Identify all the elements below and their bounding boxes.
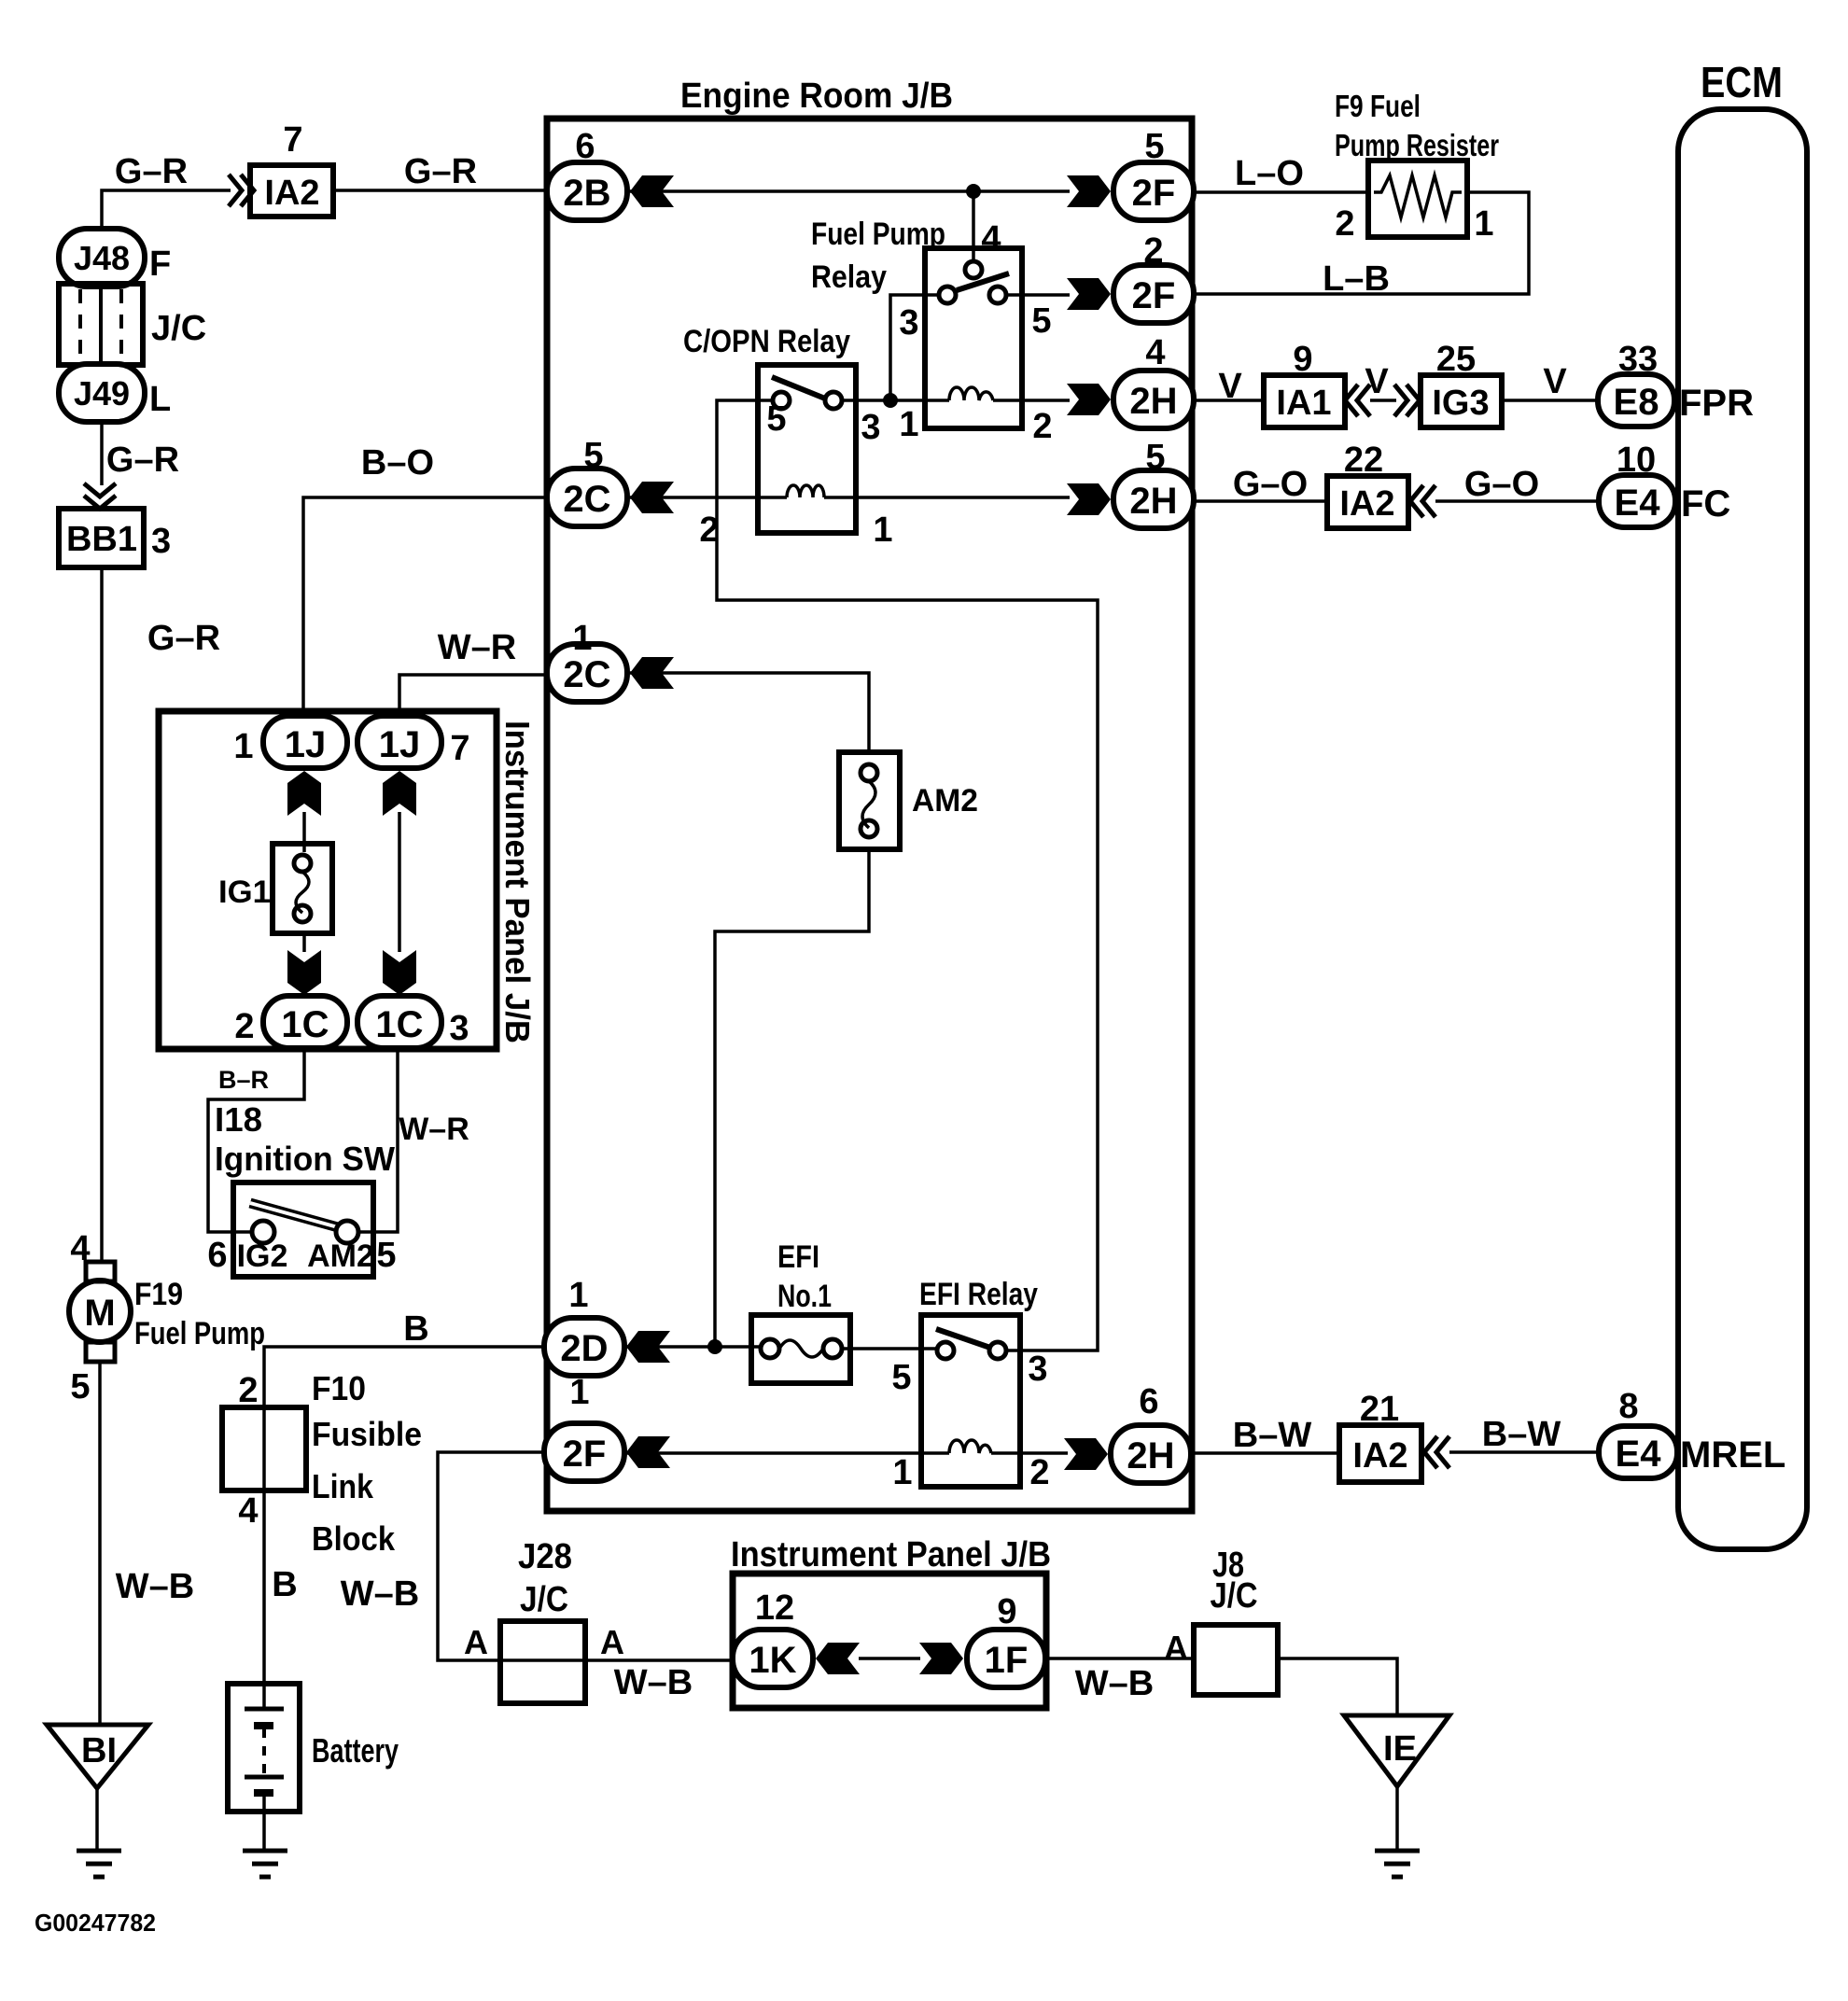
relay C/OPN	[758, 365, 856, 533]
svg-text:IG1: IG1	[218, 875, 271, 910]
arrow into 2D	[626, 1331, 670, 1363]
wire fuel pump relay pin 3 down to coil row	[890, 295, 939, 399]
wire between arrows	[859, 1657, 920, 1660]
svg-text:B–R: B–R	[218, 1066, 269, 1094]
svg-text:1: 1	[892, 1453, 912, 1492]
svg-text:5: 5	[891, 1358, 911, 1397]
arrow up into 1J pin1	[287, 771, 321, 816]
wire battery to ground	[262, 1797, 266, 1849]
connector 2F (pin 2)	[1113, 265, 1194, 323]
svg-text:25: 25	[1436, 340, 1476, 379]
wire 2F pin1 to EFI relay coil to 2H	[626, 1451, 1068, 1455]
wire 1F to J8	[1045, 1657, 1194, 1660]
svg-text:1: 1	[572, 619, 592, 658]
wire C/OPN pin 5 to EFI relay pin 3	[717, 400, 1098, 1350]
wire B-W 2H to IA2	[1191, 1451, 1339, 1455]
fuse IG1	[273, 844, 332, 933]
svg-text:J28: J28	[518, 1537, 572, 1576]
svg-text:1: 1	[899, 405, 918, 444]
wire B battery feed to 2D	[264, 1347, 544, 1407]
ignition switch I18	[233, 1182, 373, 1277]
svg-text:Engine Room J/B: Engine Room J/B	[680, 77, 953, 116]
svg-text:5: 5	[376, 1236, 396, 1275]
connector J48	[59, 229, 145, 287]
wire W-B 2F to J28	[438, 1452, 737, 1660]
junction connector IA1 (9)	[1264, 375, 1345, 427]
svg-text:10: 10	[1617, 441, 1656, 480]
svg-text:IA2: IA2	[1352, 1436, 1407, 1476]
svg-text:W–B: W–B	[341, 1574, 419, 1614]
wire G-O to E4	[1435, 499, 1600, 503]
svg-text:2F: 2F	[563, 1434, 607, 1475]
wire G-R BB1 down to fuel pump	[100, 567, 104, 1262]
chevron into BB1	[84, 483, 116, 509]
svg-text:7: 7	[450, 729, 469, 768]
svg-text:3: 3	[1028, 1350, 1047, 1389]
svg-text:L–O: L–O	[1235, 154, 1304, 193]
svg-text:6: 6	[207, 1236, 227, 1275]
EFI No.1 fuse label	[777, 1239, 832, 1314]
svg-text:IE: IE	[1383, 1729, 1417, 1769]
connector 1J (pin 7)	[357, 716, 441, 768]
svg-text:3: 3	[449, 1009, 469, 1048]
svg-text:2: 2	[699, 511, 719, 550]
wire V between chevrons	[1370, 399, 1396, 402]
wire W-B fuel pump to BI	[98, 1362, 102, 1725]
svg-text:E4: E4	[1616, 1434, 1662, 1475]
svg-text:G–R: G–R	[404, 152, 477, 191]
connector 2F (pin 1)	[544, 1423, 624, 1481]
wire 2C to C/OPN coil to 2H	[630, 496, 1070, 499]
svg-text:G–R: G–R	[115, 152, 188, 191]
svg-text:Fuel Pump: Fuel Pump	[134, 1316, 265, 1351]
arrow into 1F	[919, 1643, 963, 1674]
coil of C/OPN relay	[787, 485, 824, 497]
svg-text:BB1: BB1	[66, 520, 137, 559]
wire 2B to 2F top row	[630, 189, 1070, 193]
svg-text:9: 9	[997, 1592, 1016, 1631]
svg-text:M: M	[84, 1293, 115, 1334]
svg-text:2C: 2C	[563, 479, 610, 520]
connector 2C (pin 1)	[547, 644, 627, 702]
arrow up into 1J pin7	[383, 771, 416, 816]
svg-text:BI: BI	[81, 1731, 117, 1770]
coil of EFI relay	[949, 1440, 991, 1453]
svg-text:F: F	[149, 245, 171, 284]
svg-text:V: V	[1543, 362, 1567, 401]
arrow into 1K	[816, 1643, 860, 1674]
svg-text:AM2: AM2	[912, 783, 978, 819]
arrow into 2C pin1	[630, 657, 674, 689]
svg-text:5: 5	[1145, 438, 1165, 477]
svg-text:J49: J49	[74, 374, 130, 413]
connector 2B	[547, 162, 627, 220]
arrow into 2F pin2	[1067, 278, 1111, 310]
svg-text:3: 3	[899, 303, 918, 343]
svg-text:L: L	[149, 380, 171, 419]
svg-text:Link: Link	[312, 1467, 374, 1505]
svg-text:C/OPN Relay: C/OPN Relay	[683, 324, 850, 359]
svg-text:1C: 1C	[281, 1004, 329, 1045]
chevron out of IA2	[1424, 1436, 1449, 1468]
svg-text:3: 3	[151, 522, 171, 561]
F9 Fuel Pump Resister label	[1335, 89, 1499, 162]
wire fuel pump relay pin 5 to 2F	[1006, 293, 1070, 297]
connector 2H (pin 5)	[1113, 470, 1194, 528]
wire IG1 to 1C	[302, 933, 306, 952]
connector 2F (pin 5)	[1113, 162, 1194, 220]
svg-text:1J: 1J	[379, 724, 421, 765]
fusible link block F10	[222, 1407, 306, 1490]
svg-text:EFI Relay: EFI Relay	[919, 1277, 1038, 1312]
svg-text:W–B: W–B	[614, 1663, 693, 1702]
connector 2C (pin 5)	[547, 469, 627, 526]
junction block J28 J/C	[500, 1621, 585, 1703]
svg-text:J/C: J/C	[1211, 1576, 1258, 1616]
svg-text:2: 2	[1143, 231, 1163, 271]
svg-text:3: 3	[861, 408, 880, 447]
svg-text:1C: 1C	[375, 1004, 423, 1045]
svg-text:5: 5	[583, 436, 603, 475]
svg-text:2B: 2B	[563, 173, 610, 214]
wire B F10 to battery	[262, 1490, 266, 1707]
svg-text:2: 2	[234, 1007, 254, 1046]
svg-text:2F: 2F	[1132, 275, 1176, 316]
connector BB1	[59, 509, 144, 567]
svg-text:F9 Fuel: F9 Fuel	[1335, 89, 1421, 123]
svg-text:1: 1	[233, 727, 253, 766]
svg-text:Pump Resister: Pump Resister	[1335, 128, 1499, 162]
wire 1J to IG1 fuse	[302, 812, 306, 852]
svg-text:4: 4	[238, 1491, 258, 1531]
svg-text:No.1: No.1	[777, 1279, 832, 1314]
wire AM2 fuse down to junction at 2D row	[715, 849, 869, 1347]
svg-text:J/C: J/C	[520, 1580, 568, 1619]
svg-text:W–R: W–R	[399, 1112, 469, 1147]
connector 2D	[544, 1318, 624, 1376]
Instrument Panel J/B box (middle)	[159, 711, 497, 1049]
arrow down into 1C pin2	[287, 950, 321, 995]
svg-text:F10: F10	[312, 1369, 366, 1407]
svg-text:1K: 1K	[749, 1640, 796, 1681]
svg-text:B–O: B–O	[361, 443, 434, 483]
junction connector IA2 (21)	[1339, 1425, 1421, 1482]
svg-text:2C: 2C	[563, 654, 610, 695]
svg-text:B: B	[272, 1565, 297, 1604]
svg-text:Fusible: Fusible	[312, 1415, 422, 1453]
Fuel Pump Relay label	[811, 217, 945, 295]
svg-text:J48: J48	[74, 239, 130, 277]
arrow into 2B	[630, 175, 674, 207]
svg-text:2H: 2H	[1127, 1435, 1174, 1476]
svg-text:2F: 2F	[1132, 173, 1176, 214]
junction node	[883, 393, 898, 408]
junction connector IA2 (22)	[1327, 476, 1408, 528]
svg-text:V: V	[1365, 362, 1389, 401]
ground connector BI	[47, 1725, 148, 1788]
svg-text:2: 2	[1032, 407, 1052, 446]
svg-text:EFI: EFI	[777, 1239, 819, 1275]
wire G-O 2H to IA2	[1194, 499, 1327, 503]
wire G-R from IA2 to 2B	[333, 189, 548, 192]
svg-text:IA1: IA1	[1276, 384, 1331, 423]
connector 1J (pin 1)	[263, 716, 347, 768]
svg-text:Instrument Panel J/B: Instrument Panel J/B	[498, 721, 537, 1043]
svg-text:Instrument Panel J/B: Instrument Panel J/B	[731, 1535, 1051, 1574]
svg-text:1: 1	[1474, 204, 1493, 244]
fuse AM2	[839, 752, 900, 849]
ground	[77, 1851, 121, 1877]
svg-text:Relay: Relay	[811, 259, 887, 295]
svg-text:G–R: G–R	[106, 441, 179, 480]
svg-text:2: 2	[238, 1371, 258, 1410]
svg-text:MREL: MREL	[1680, 1434, 1785, 1476]
svg-text:9: 9	[1293, 340, 1312, 379]
svg-text:7: 7	[283, 120, 302, 160]
chevron into IG3	[1394, 385, 1420, 416]
svg-text:G–O: G–O	[1464, 465, 1539, 504]
chevron out of IA1	[1345, 385, 1370, 416]
connector E4 FC	[1599, 475, 1675, 527]
coil of fuel pump relay	[949, 387, 993, 400]
svg-text:G00247782: G00247782	[35, 1909, 156, 1937]
svg-text:2H: 2H	[1129, 381, 1177, 422]
ground	[243, 1851, 287, 1877]
svg-text:1: 1	[569, 1373, 589, 1412]
svg-text:FC: FC	[1681, 483, 1730, 525]
arrow into 2H pin6	[1064, 1438, 1108, 1470]
battery	[228, 1684, 300, 1812]
ground	[1375, 1851, 1420, 1877]
wire IE to ground	[1395, 1786, 1399, 1849]
svg-text:L–B: L–B	[1323, 259, 1390, 299]
connector J49	[59, 364, 145, 422]
svg-text:W–R: W–R	[438, 628, 516, 667]
junction block J/C (J48/J49)	[59, 284, 143, 365]
svg-text:F19: F19	[134, 1277, 183, 1312]
wire BI to ground	[95, 1788, 99, 1849]
svg-text:21: 21	[1360, 1390, 1399, 1429]
svg-text:B–W: B–W	[1482, 1415, 1561, 1454]
svg-text:IG2: IG2	[237, 1238, 288, 1274]
svg-text:2: 2	[1029, 1453, 1049, 1492]
svg-text:6: 6	[1139, 1382, 1158, 1421]
svg-text:5: 5	[1144, 127, 1164, 166]
J8 label	[1211, 1546, 1258, 1616]
wire 1J pin7 to 1C pin3	[398, 812, 401, 952]
wire L-O 2F to resistor	[1194, 190, 1368, 194]
svg-text:Block: Block	[312, 1519, 396, 1558]
arrow into 2F pin1	[626, 1436, 670, 1468]
wire C/OPN pin 3 through fuel pump relay coil to 2H	[842, 399, 1070, 402]
svg-text:4: 4	[981, 219, 1001, 259]
svg-text:8: 8	[1618, 1387, 1638, 1426]
svg-text:ECM: ECM	[1701, 58, 1783, 106]
svg-text:E4: E4	[1615, 483, 1661, 524]
svg-text:A: A	[1164, 1629, 1188, 1667]
wire V 2H to IA1	[1194, 399, 1264, 402]
junction block J8 J/C	[1194, 1625, 1278, 1695]
svg-text:6: 6	[575, 127, 595, 166]
svg-text:G–R: G–R	[147, 619, 220, 658]
svg-text:W–B: W–B	[1075, 1664, 1154, 1703]
wire G-R J49 to BB1	[100, 422, 104, 485]
Engine Room J/B box	[547, 119, 1192, 1511]
resistor F9	[1368, 161, 1467, 237]
wire B-R 1C to ignition switch IG2	[208, 1048, 304, 1232]
chevron into IA2	[229, 175, 254, 206]
wire V IG3 to E8	[1502, 399, 1598, 402]
svg-text:IA2: IA2	[264, 174, 319, 213]
svg-text:2H: 2H	[1129, 481, 1177, 522]
svg-text:J/C: J/C	[151, 309, 206, 348]
svg-text:5: 5	[70, 1367, 90, 1406]
svg-text:W–B: W–B	[116, 1567, 194, 1606]
connector 2H (pin 4)	[1113, 371, 1194, 428]
fuse EFI No.1	[751, 1315, 850, 1383]
wire 2D to EFI No.1 fuse	[626, 1345, 761, 1349]
junction node	[707, 1339, 722, 1354]
junction node	[966, 184, 981, 199]
svg-text:22: 22	[1344, 441, 1383, 480]
svg-text:G–O: G–O	[1233, 465, 1308, 504]
arrow into 2H pin4	[1067, 384, 1111, 415]
junction connector IA2 (7)	[250, 165, 333, 217]
connector E8 FPR	[1598, 374, 1674, 427]
svg-text:A: A	[464, 1623, 488, 1661]
connector 1K	[733, 1630, 813, 1687]
connector E4 MREL	[1599, 1426, 1677, 1478]
svg-text:V: V	[1218, 367, 1242, 406]
wire B-W to E4	[1449, 1450, 1599, 1454]
svg-text:A: A	[600, 1623, 624, 1661]
wire L-B resistor back to 2F	[1194, 192, 1529, 294]
svg-text:4: 4	[1145, 333, 1165, 372]
svg-text:2: 2	[1335, 204, 1354, 244]
svg-text:5: 5	[1031, 301, 1051, 341]
svg-text:5: 5	[766, 399, 786, 439]
ground connector IE	[1344, 1715, 1449, 1786]
svg-text:1: 1	[568, 1276, 588, 1315]
svg-text:Battery: Battery	[312, 1731, 399, 1770]
wire 2C pin1 to AM2 fuse	[630, 673, 869, 752]
svg-text:Ignition SW: Ignition SW	[215, 1140, 395, 1178]
J28 label	[518, 1537, 572, 1619]
svg-text:12: 12	[755, 1588, 794, 1628]
connector 1C (pin 3)	[357, 996, 441, 1048]
connector 2H (pin 6)	[1111, 1425, 1191, 1483]
svg-text:IA2: IA2	[1339, 484, 1394, 524]
relay Fuel Pump Relay	[925, 248, 1022, 428]
ECM box	[1678, 109, 1807, 1549]
svg-text:1: 1	[873, 511, 892, 550]
svg-text:1J: 1J	[285, 724, 327, 765]
svg-text:FPR: FPR	[1679, 383, 1754, 424]
svg-text:B–W: B–W	[1233, 1416, 1312, 1455]
svg-text:I18: I18	[215, 1100, 262, 1139]
svg-text:AM2: AM2	[307, 1238, 374, 1274]
wire junction down to fuel pump relay pin 4	[972, 191, 975, 261]
wire B-O from 2C to 1J	[303, 497, 550, 717]
arrow down into 1C pin3	[383, 950, 416, 995]
connector 1F	[967, 1630, 1045, 1687]
relay EFI	[921, 1315, 1020, 1487]
arrow into 2H pin5	[1067, 483, 1111, 515]
wire G-R from corner to IA2 junction connector	[102, 190, 231, 229]
svg-text:1F: 1F	[985, 1640, 1029, 1681]
chevron out of IA2	[1410, 485, 1435, 517]
wire J8 to IE ground	[1278, 1658, 1397, 1715]
svg-text:E8: E8	[1614, 382, 1659, 423]
svg-text:33: 33	[1618, 340, 1658, 379]
arrow into 2F pin5	[1067, 175, 1111, 207]
connector 1C (pin 2)	[263, 996, 347, 1048]
junction connector IG3 (25)	[1421, 375, 1502, 427]
wire W-R from 1J to 2C	[399, 675, 549, 717]
svg-text:B: B	[403, 1309, 428, 1349]
arrow into 2C pin5	[630, 482, 674, 513]
svg-text:IG3: IG3	[1432, 384, 1489, 423]
wire fuse to EFI relay pin 5	[842, 1347, 937, 1350]
motor F19 Fuel Pump	[69, 1262, 131, 1362]
wire W-R AM2 to 1C pin3	[358, 1048, 398, 1232]
Instrument Panel J/B box (bottom)	[733, 1574, 1046, 1708]
svg-text:2D: 2D	[560, 1328, 608, 1369]
